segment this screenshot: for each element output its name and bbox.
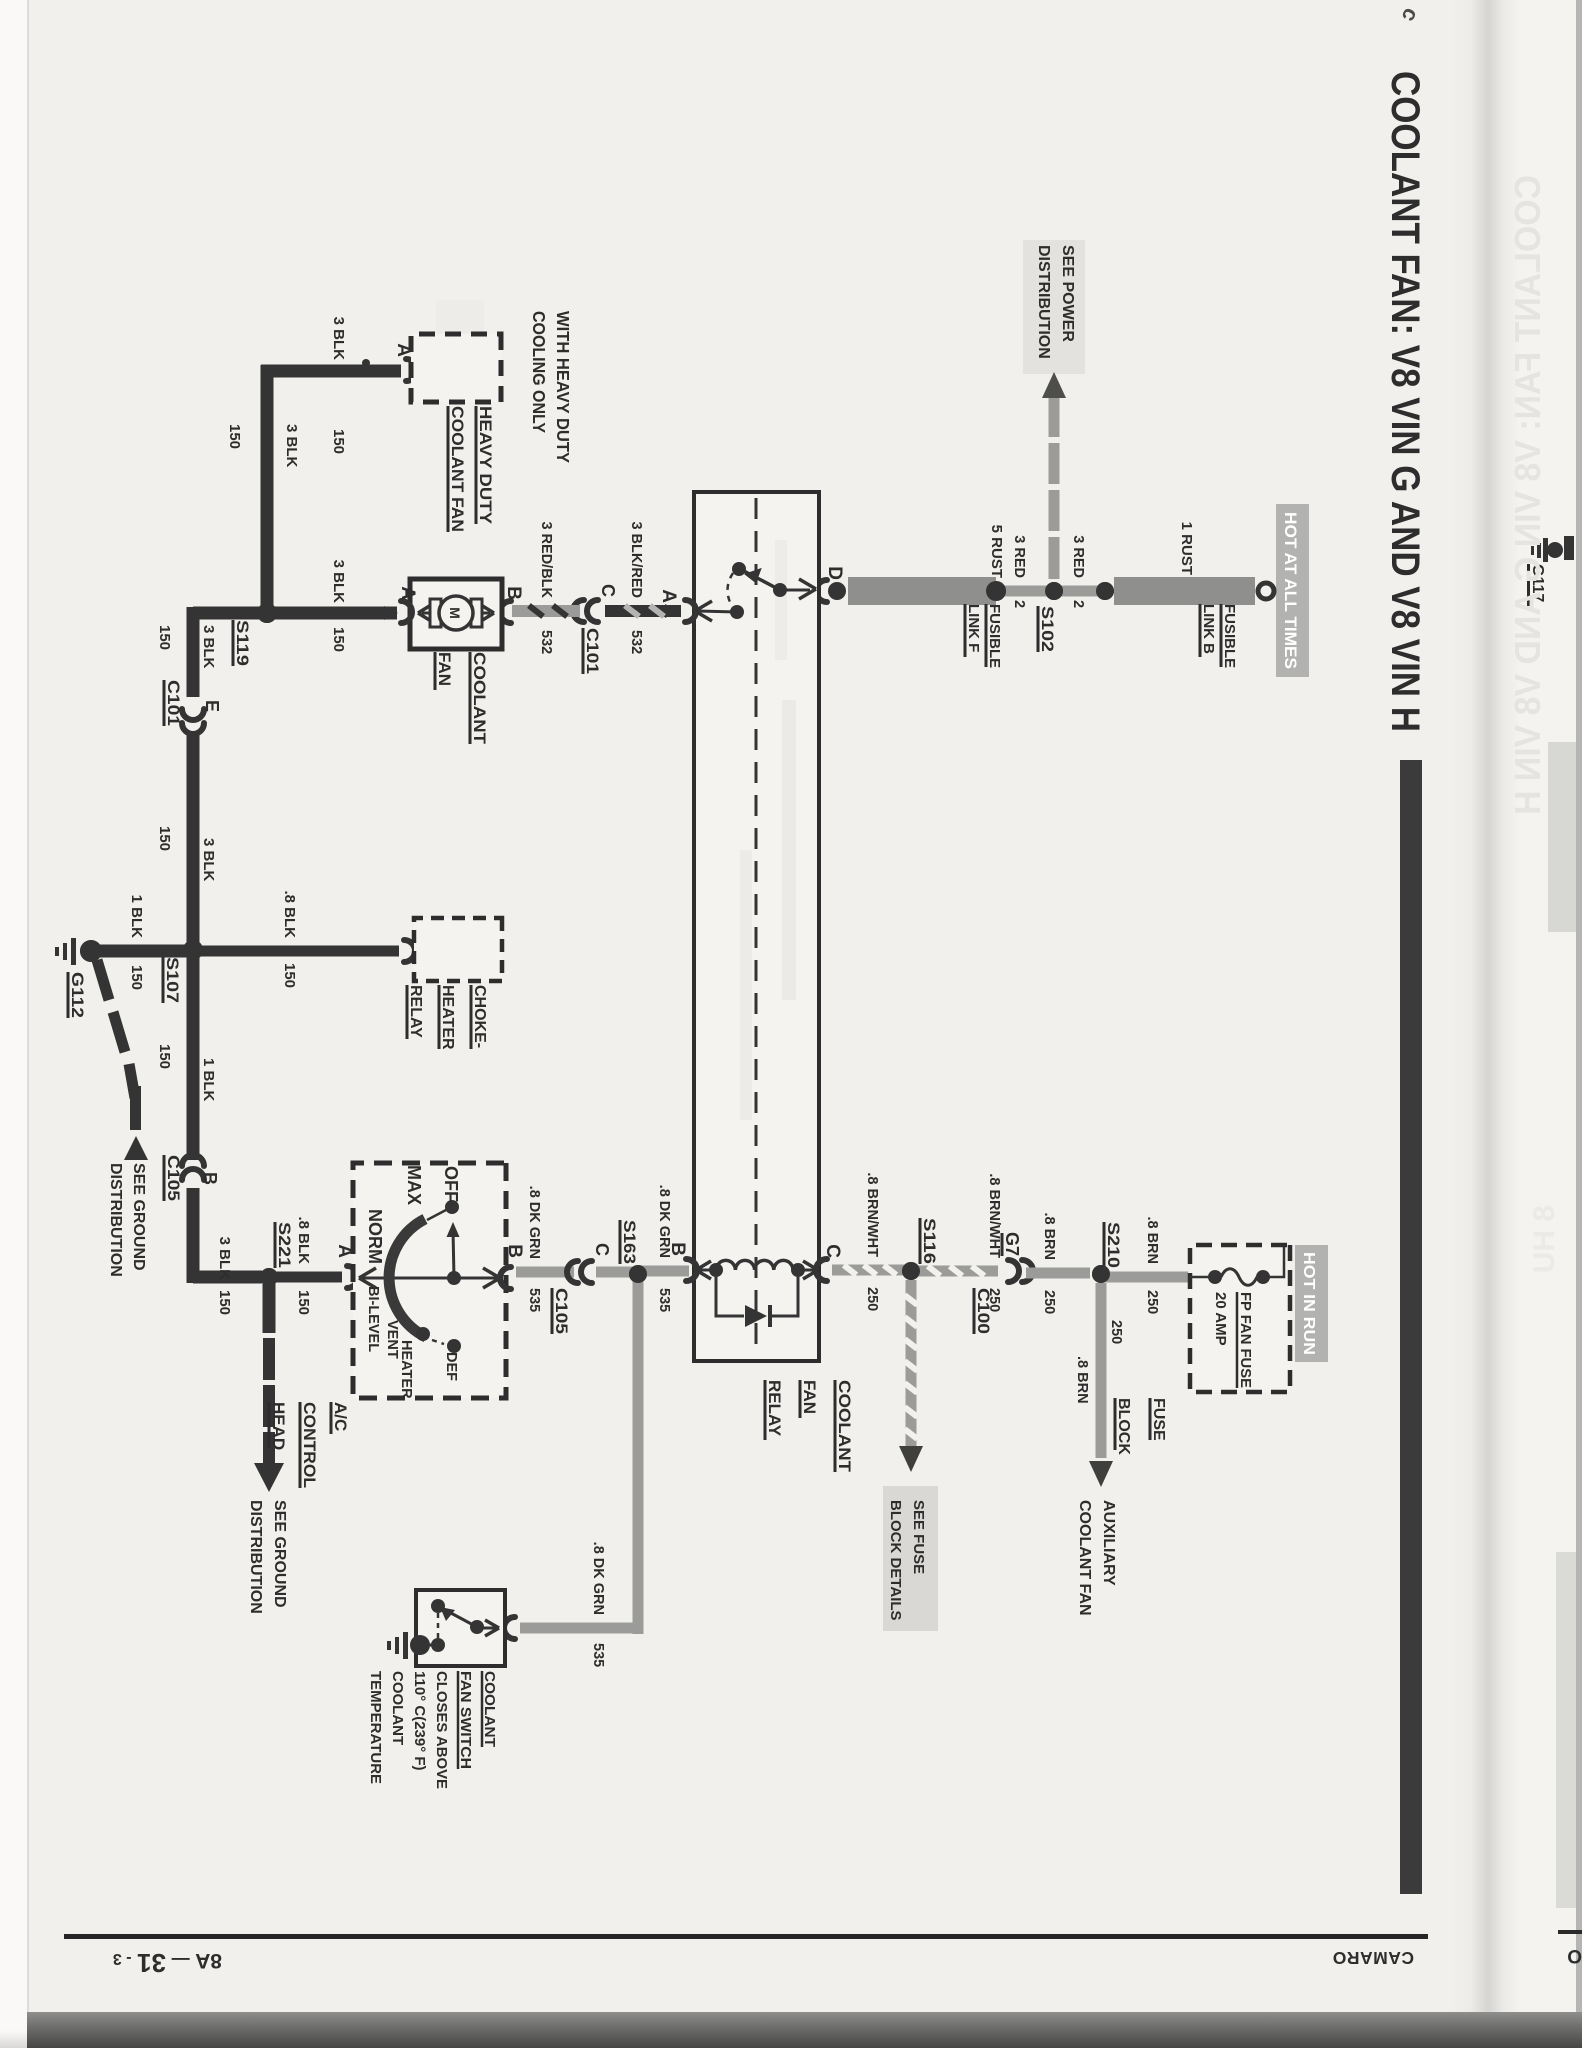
svg-text:150: 150 bbox=[156, 1044, 173, 1069]
svg-text:RELAY: RELAY bbox=[765, 1380, 784, 1437]
wire to heavy duty fan (vertical) bbox=[261, 365, 401, 378]
svg-text:3 BLK: 3 BLK bbox=[216, 1237, 233, 1281]
svg-text:535: 535 bbox=[656, 1288, 672, 1312]
ground symbol under switch bbox=[403, 1632, 408, 1659]
fusible link F wire (5 RUST) bbox=[848, 577, 996, 605]
svg-text:250: 250 bbox=[1108, 1320, 1124, 1344]
A/C head: line pivot to pin A with arrow bbox=[362, 1277, 454, 1280]
coolant fan relay box bbox=[694, 492, 819, 1361]
relay pin A cup bbox=[685, 600, 696, 622]
wire .8 DK GRN 535 (A/C head B up to C105 C) bbox=[516, 1267, 574, 1278]
svg-text:S119: S119 bbox=[233, 620, 252, 666]
svg-text:150: 150 bbox=[216, 1290, 233, 1315]
relay switch movable arm bbox=[742, 570, 780, 590]
relay switch closed-position dot bbox=[730, 605, 744, 619]
A/C control head pin A cup bbox=[347, 1266, 358, 1288]
far right page edge bbox=[1576, 0, 1582, 2048]
A/C head: dashed link to DEF bbox=[432, 1340, 444, 1344]
S102 branch dashed wire to power distribution bbox=[1049, 398, 1060, 437]
splice S119 bbox=[257, 603, 277, 623]
svg-text:HOT AT ALL TIMES: HOT AT ALL TIMES bbox=[1281, 512, 1299, 669]
fusible link B wire (1 RUST) bbox=[1114, 577, 1255, 605]
svg-text:150: 150 bbox=[226, 424, 243, 449]
svg-text:DISTRIBUTION: DISTRIBUTION bbox=[1035, 245, 1052, 359]
svg-text:3 BLK: 3 BLK bbox=[330, 317, 347, 361]
switch movable arm with arrow bbox=[449, 1612, 477, 1627]
switch contact dot (pin side) bbox=[470, 1620, 484, 1634]
heavy duty coolant fan pin A cup bbox=[406, 359, 417, 381]
svg-text:SEE POWER: SEE POWER bbox=[1059, 245, 1076, 342]
svg-text:COOLANT FAN: V8 VIN G AND V8 V: COOLANT FAN: V8 VIN G AND V8 VIN H bbox=[1383, 71, 1427, 732]
wire 3 RED 2 lower segment bbox=[996, 586, 1054, 597]
svg-text:FUSE: FUSE bbox=[1150, 1398, 1167, 1441]
svg-text:110° C(239° F): 110° C(239° F) bbox=[411, 1671, 428, 1771]
svg-text:150: 150 bbox=[128, 965, 145, 990]
svg-text:3 BLK: 3 BLK bbox=[330, 560, 347, 604]
motor circle bbox=[439, 596, 473, 630]
wire to heavy duty fan (horizontal) bbox=[261, 365, 274, 613]
svg-text:A: A bbox=[397, 586, 418, 600]
A/C head: DEF contact dot bbox=[447, 1339, 461, 1353]
footer CAMARO (printed upside down) bbox=[1310, 1944, 1414, 1968]
svg-text:C105: C105 bbox=[552, 1288, 571, 1334]
svg-text:C105: C105 bbox=[164, 1155, 183, 1201]
connector C105 pin C bbox=[581, 1261, 592, 1283]
svg-text:.8 BRN: .8 BRN bbox=[1144, 1216, 1160, 1264]
terminal ring at fusible link B bbox=[1258, 583, 1274, 599]
svg-text:HOT IN RUN: HOT IN RUN bbox=[1300, 1252, 1317, 1355]
coolant fan motor pin B cup bbox=[500, 601, 511, 623]
svg-text:SEE GROUND: SEE GROUND bbox=[271, 1500, 288, 1608]
relay switch: arrow to pin D bbox=[780, 589, 810, 592]
A/C head: pivot dot bbox=[447, 1271, 461, 1285]
svg-text:C: C bbox=[822, 1244, 843, 1258]
svg-text:SEE GROUND: SEE GROUND bbox=[130, 1163, 147, 1271]
junction dot below fusible link B bbox=[1096, 582, 1114, 600]
svg-text:1 BLK: 1 BLK bbox=[200, 1058, 217, 1102]
svg-text:150: 150 bbox=[330, 429, 347, 454]
svg-text:5 RUST: 5 RUST bbox=[988, 525, 1005, 578]
relay pin C cup bbox=[816, 1259, 827, 1281]
svg-text:20 AMP: 20 AMP bbox=[1212, 1292, 1229, 1346]
splice S116 bbox=[902, 1262, 920, 1280]
relay switch open-position dot bbox=[732, 562, 746, 576]
ground G112 bbox=[80, 940, 102, 962]
svg-text:MAX: MAX bbox=[404, 1165, 424, 1205]
A/C head: contact arc bbox=[389, 1219, 426, 1337]
A/C control head box (dashed) bbox=[353, 1163, 506, 1398]
right gutter shadow between pages bbox=[1444, 0, 1520, 2048]
choke heater relay box (dashed) bbox=[414, 918, 502, 981]
S210 branch to auxiliary coolant fan bbox=[1096, 1283, 1107, 1458]
svg-text:COOLANT: COOLANT bbox=[481, 1671, 498, 1747]
dashed lead from G112 to ground distribution bbox=[97, 960, 135, 1098]
svg-text:FAN SWITCH: FAN SWITCH bbox=[457, 1671, 474, 1769]
wire .8 BRN 250 (fuse block to S210) bbox=[1101, 1272, 1188, 1283]
svg-text:3 RED/BLK: 3 RED/BLK bbox=[538, 521, 554, 598]
junction dots overlay (redrawn on top of wires) bbox=[1096, 582, 1114, 600]
wire .8 BRN 250 (C100 to S210) bbox=[1026, 1268, 1090, 1279]
switch fixed contact dot bbox=[431, 1599, 445, 1613]
relay diode loop bbox=[716, 1270, 798, 1316]
svg-text:WITH HEAVY DUTY: WITH HEAVY DUTY bbox=[553, 311, 573, 463]
svg-text:FUSIBLE: FUSIBLE bbox=[1221, 604, 1238, 668]
svg-text:DISTRIBUTION: DISTRIBUTION bbox=[247, 1500, 264, 1614]
svg-text:G7: G7 bbox=[1002, 1232, 1022, 1256]
switch ground contact dot bbox=[431, 1638, 445, 1652]
svg-text:DISTRIBUTION: DISTRIBUTION bbox=[107, 1163, 124, 1277]
arrow to see power distribution bbox=[1042, 372, 1066, 398]
left page edge strip bbox=[0, 0, 29, 2048]
S116 branch to fuse block details bbox=[906, 1280, 917, 1448]
svg-text:COOLANT: COOLANT bbox=[835, 1380, 854, 1473]
svg-text:S221: S221 bbox=[275, 1222, 294, 1268]
svg-text:BLOCK DETAILS: BLOCK DETAILS bbox=[887, 1500, 904, 1621]
svg-text:532: 532 bbox=[538, 630, 554, 654]
svg-text:CHOKE-: CHOKE- bbox=[471, 985, 488, 1048]
relay coil arrows to pins C and B bbox=[798, 1269, 816, 1272]
switch dashed link bbox=[437, 1613, 440, 1640]
svg-text:1 BLK: 1 BLK bbox=[128, 895, 145, 939]
faint bleed smudge near heavy duty fan box bbox=[436, 300, 484, 392]
svg-text:NORM: NORM bbox=[365, 1209, 385, 1264]
svg-text:COOLING ONLY: COOLING ONLY bbox=[529, 311, 549, 433]
wire 3 BLK 150 (C101 E to S107) bbox=[187, 731, 200, 950]
svg-text:DEF: DEF bbox=[443, 1352, 459, 1381]
relay pin B cup bbox=[686, 1259, 697, 1281]
svg-text:FAN: FAN bbox=[800, 1380, 819, 1414]
svg-text:A: A bbox=[658, 589, 679, 603]
svg-text:C100: C100 bbox=[974, 1288, 993, 1334]
motor brushes bbox=[471, 599, 482, 627]
A/C head: HEATER contact dot bbox=[416, 1327, 430, 1341]
svg-text:3 BLK: 3 BLK bbox=[200, 625, 217, 669]
svg-text:.8 BRN/WHT: .8 BRN/WHT bbox=[864, 1172, 880, 1257]
ground G117 on adjacent page bbox=[1504, 500, 1582, 640]
svg-text:250: 250 bbox=[864, 1287, 880, 1311]
svg-text:FP FAN FUSE: FP FAN FUSE bbox=[1237, 1292, 1254, 1388]
ground bus: S119 corner to C101 E bbox=[187, 607, 200, 697]
svg-text:LINK F: LINK F bbox=[965, 604, 982, 652]
connector C101 pin C bbox=[587, 600, 598, 622]
svg-text:LINK B: LINK B bbox=[1200, 604, 1217, 654]
see power distribution gray box bbox=[1023, 240, 1085, 374]
wire C105 to corner to S221 bbox=[187, 1188, 200, 1283]
svg-text:3 BLK: 3 BLK bbox=[200, 838, 217, 882]
wire 3 BLK/RED 532 (relay A to C101) bbox=[605, 605, 681, 617]
svg-text:250: 250 bbox=[1144, 1290, 1160, 1314]
coolant fan motor box bbox=[410, 579, 502, 649]
connector C105 pin B bbox=[182, 1155, 204, 1166]
footer rule bbox=[64, 1934, 1428, 1939]
wire .8 DK GRN 535 (S163 up to relay pin B) bbox=[638, 1266, 689, 1277]
fuse wire inside block bbox=[1269, 1247, 1284, 1277]
A/C head: OFF contact dot bbox=[445, 1200, 459, 1214]
switch case ground dot bbox=[410, 1635, 430, 1655]
svg-text:TEMPERATURE: TEMPERATURE bbox=[367, 1671, 384, 1784]
speck on wire bbox=[362, 359, 370, 367]
svg-text:2: 2 bbox=[1011, 600, 1027, 608]
svg-text:.8 DK GRN: .8 DK GRN bbox=[656, 1185, 672, 1258]
relay internal dashed centerline bbox=[755, 498, 758, 1355]
splice S221 bbox=[260, 1268, 278, 1286]
svg-text:.8 DK GRN: .8 DK GRN bbox=[590, 1542, 606, 1615]
switch arrow from pin bbox=[477, 1627, 496, 1630]
splice S107 bbox=[183, 940, 203, 960]
coolant fan switch pin cup bbox=[504, 1617, 515, 1639]
connector C101 pin E bbox=[182, 709, 204, 720]
svg-text:C101: C101 bbox=[583, 628, 602, 674]
A/C head: wiper to OFF with arrow bbox=[453, 1230, 454, 1278]
relay switch dashed travel arc bbox=[728, 573, 734, 608]
wire S221 up to A/C control head pin A bbox=[269, 1272, 342, 1283]
adjacent page bleed-through gray strip lower bbox=[1556, 1552, 1582, 1908]
relay switch pivot dot bbox=[773, 583, 787, 597]
wire .8 BLK 150 (S107 up to choke heater relay) bbox=[193, 946, 399, 957]
fuse block box (dashed) bbox=[1190, 1245, 1290, 1392]
svg-text:150: 150 bbox=[281, 963, 298, 988]
svg-text:2: 2 bbox=[1070, 600, 1086, 608]
svg-text:FAN: FAN bbox=[435, 652, 454, 686]
wire 3 RED 2 upper segment bbox=[1054, 586, 1105, 597]
svg-text:COOLANT FAN: V8 VIN G AND V8 V: COOLANT FAN: V8 VIN G AND V8 VIN H bbox=[1507, 175, 1548, 815]
svg-text:C101: C101 bbox=[164, 680, 183, 726]
svg-text:.8 DK GRN: .8 DK GRN bbox=[526, 1186, 542, 1259]
svg-text:1 RUST: 1 RUST bbox=[1178, 522, 1195, 575]
motor arrows bbox=[472, 612, 490, 615]
splice S210 bbox=[1092, 1265, 1110, 1283]
see fuse block details box bbox=[883, 1486, 938, 1631]
wire .8 BRN/WHT 250 (relay C to S116) bbox=[832, 1265, 905, 1276]
wire S107 down to G112 bbox=[93, 945, 193, 958]
splice S163 bbox=[629, 1265, 647, 1283]
footer page number 8A-31-3 (printed upside down) bbox=[66, 1944, 222, 1978]
small c printing mark top right bbox=[1396, 4, 1425, 26]
wire 1 BLK 150 (S107 to C105) bbox=[187, 950, 200, 1160]
svg-text:C: C bbox=[598, 584, 618, 597]
svg-text:150: 150 bbox=[330, 627, 347, 652]
male terminal arrow at motor pin A bbox=[384, 606, 398, 620]
svg-text:COOLANT FAN: COOLANT FAN bbox=[1076, 1500, 1093, 1616]
svg-text:150: 150 bbox=[295, 1290, 312, 1315]
svg-text:250: 250 bbox=[1041, 1290, 1057, 1314]
svg-text:B: B bbox=[504, 1244, 525, 1258]
relay diode bbox=[745, 1305, 767, 1327]
wire 3 RED/BLK 532 (C101 to fan motor B) bbox=[512, 605, 580, 617]
choke heater relay pin C cup bbox=[404, 940, 415, 962]
adjacent page footer fragment O bbox=[1558, 1930, 1582, 1934]
splice S102 bbox=[1045, 582, 1063, 600]
title bar bbox=[1400, 760, 1422, 1894]
svg-text:E: E bbox=[202, 700, 222, 712]
svg-text:8 HU: 8 HU bbox=[1528, 1205, 1561, 1273]
heavy duty coolant fan box (dashed) bbox=[411, 334, 501, 402]
svg-text:3 RED: 3 RED bbox=[1070, 535, 1086, 578]
svg-text:.8 BLK: .8 BLK bbox=[295, 1216, 312, 1264]
svg-text:535: 535 bbox=[590, 1643, 606, 1667]
svg-text:COOLANT: COOLANT bbox=[389, 1671, 406, 1745]
relay pin D dot and cup bbox=[828, 582, 846, 600]
wire 3 BLK 150 (fan motor A down to S119) bbox=[261, 607, 397, 620]
bottom scanner band bbox=[27, 2012, 1582, 2048]
arrow (points back along lead) bbox=[124, 1136, 148, 1160]
svg-text:C: C bbox=[592, 1243, 612, 1256]
adjacent page under the gutter bbox=[1520, 0, 1582, 2048]
svg-text:3 BLK/RED: 3 BLK/RED bbox=[628, 521, 644, 598]
svg-text:BI-LEVEL: BI-LEVEL bbox=[365, 1286, 381, 1352]
svg-text:.8 BRN: .8 BRN bbox=[1074, 1356, 1090, 1404]
svg-text:G112: G112 bbox=[68, 972, 87, 1018]
svg-text:.8 BRN: .8 BRN bbox=[1041, 1212, 1057, 1260]
svg-text:.8 BLK: .8 BLK bbox=[281, 890, 298, 938]
relay coil bbox=[716, 1260, 793, 1270]
coolant fan motor pin A cup bbox=[401, 601, 412, 623]
S221 branch to ground distribution bbox=[263, 1283, 276, 1333]
svg-text:AUXILIARY: AUXILIARY bbox=[1100, 1500, 1117, 1586]
A/C head: line pivot to pin B with arrow bbox=[454, 1277, 497, 1280]
svg-text:RELAY: RELAY bbox=[407, 985, 424, 1038]
svg-text:HEAVY DUTY: HEAVY DUTY bbox=[476, 406, 495, 525]
A/C head pin B cup bbox=[500, 1267, 511, 1289]
svg-text:3 BLK: 3 BLK bbox=[283, 424, 300, 468]
svg-text:.8 BRN/WHT: .8 BRN/WHT bbox=[986, 1173, 1002, 1258]
coolant fan switch box bbox=[416, 1590, 505, 1666]
hot at all times box bbox=[1276, 504, 1309, 677]
svg-text:HEATER: HEATER bbox=[398, 1340, 414, 1399]
svg-text:S163: S163 bbox=[620, 1220, 639, 1264]
svg-text:OFF: OFF bbox=[441, 1166, 461, 1202]
svg-text:150: 150 bbox=[156, 625, 173, 650]
svg-text:SEE FUSE: SEE FUSE bbox=[910, 1500, 927, 1574]
wire .8 BRN/WHT 250 (S116 to C100) bbox=[911, 1266, 998, 1277]
fuse element bbox=[1256, 1270, 1270, 1284]
relay coil end dots bbox=[791, 1263, 805, 1277]
svg-text:532: 532 bbox=[628, 630, 644, 654]
svg-text:150: 150 bbox=[156, 826, 173, 851]
male terminal arrow at relay pin A bbox=[665, 604, 679, 618]
wire .8 DK GRN 535 (C105 C up to S163) bbox=[596, 1267, 638, 1278]
svg-text:CONTROL: CONTROL bbox=[300, 1402, 319, 1488]
relay switch arrow to pin A bbox=[698, 611, 737, 612]
adjacent page bleed-through gray strip upper bbox=[1548, 742, 1582, 932]
svg-text:3 RED: 3 RED bbox=[1011, 535, 1027, 578]
svg-text:A/C: A/C bbox=[331, 1402, 350, 1431]
svg-text:COOLANT FAN: COOLANT FAN bbox=[448, 406, 467, 532]
svg-text:HEATER: HEATER bbox=[439, 985, 456, 1050]
svg-text:S116: S116 bbox=[920, 1218, 939, 1264]
svg-text:BLOCK: BLOCK bbox=[1115, 1398, 1132, 1455]
connector C100 / G7 bbox=[1022, 1260, 1033, 1282]
svg-text:S210: S210 bbox=[1104, 1222, 1123, 1268]
svg-text:B: B bbox=[503, 586, 524, 600]
svg-text:B: B bbox=[200, 1172, 220, 1185]
svg-text:S107: S107 bbox=[163, 957, 182, 1003]
A/C head: link OFF to arc bbox=[427, 1210, 446, 1220]
svg-text:D: D bbox=[824, 566, 845, 580]
svg-text:CLOSES ABOVE: CLOSES ABOVE bbox=[433, 1671, 450, 1789]
svg-text:S102: S102 bbox=[1038, 606, 1057, 652]
faint bleed-through smudges inside relay box bbox=[782, 700, 796, 1000]
svg-text:HEAD: HEAD bbox=[269, 1402, 288, 1450]
junction dot at fusible link F top bbox=[986, 581, 1006, 601]
svg-text:COOLANT: COOLANT bbox=[470, 652, 489, 745]
svg-text:FUSIBLE: FUSIBLE bbox=[986, 604, 1003, 668]
S163 branch to coolant fan switch bbox=[633, 1278, 644, 1634]
svg-text:M: M bbox=[447, 607, 463, 619]
svg-text:535: 535 bbox=[526, 1288, 542, 1312]
wire S119 down to ground bus bbox=[193, 607, 267, 620]
hot in run box bbox=[1295, 1245, 1328, 1362]
